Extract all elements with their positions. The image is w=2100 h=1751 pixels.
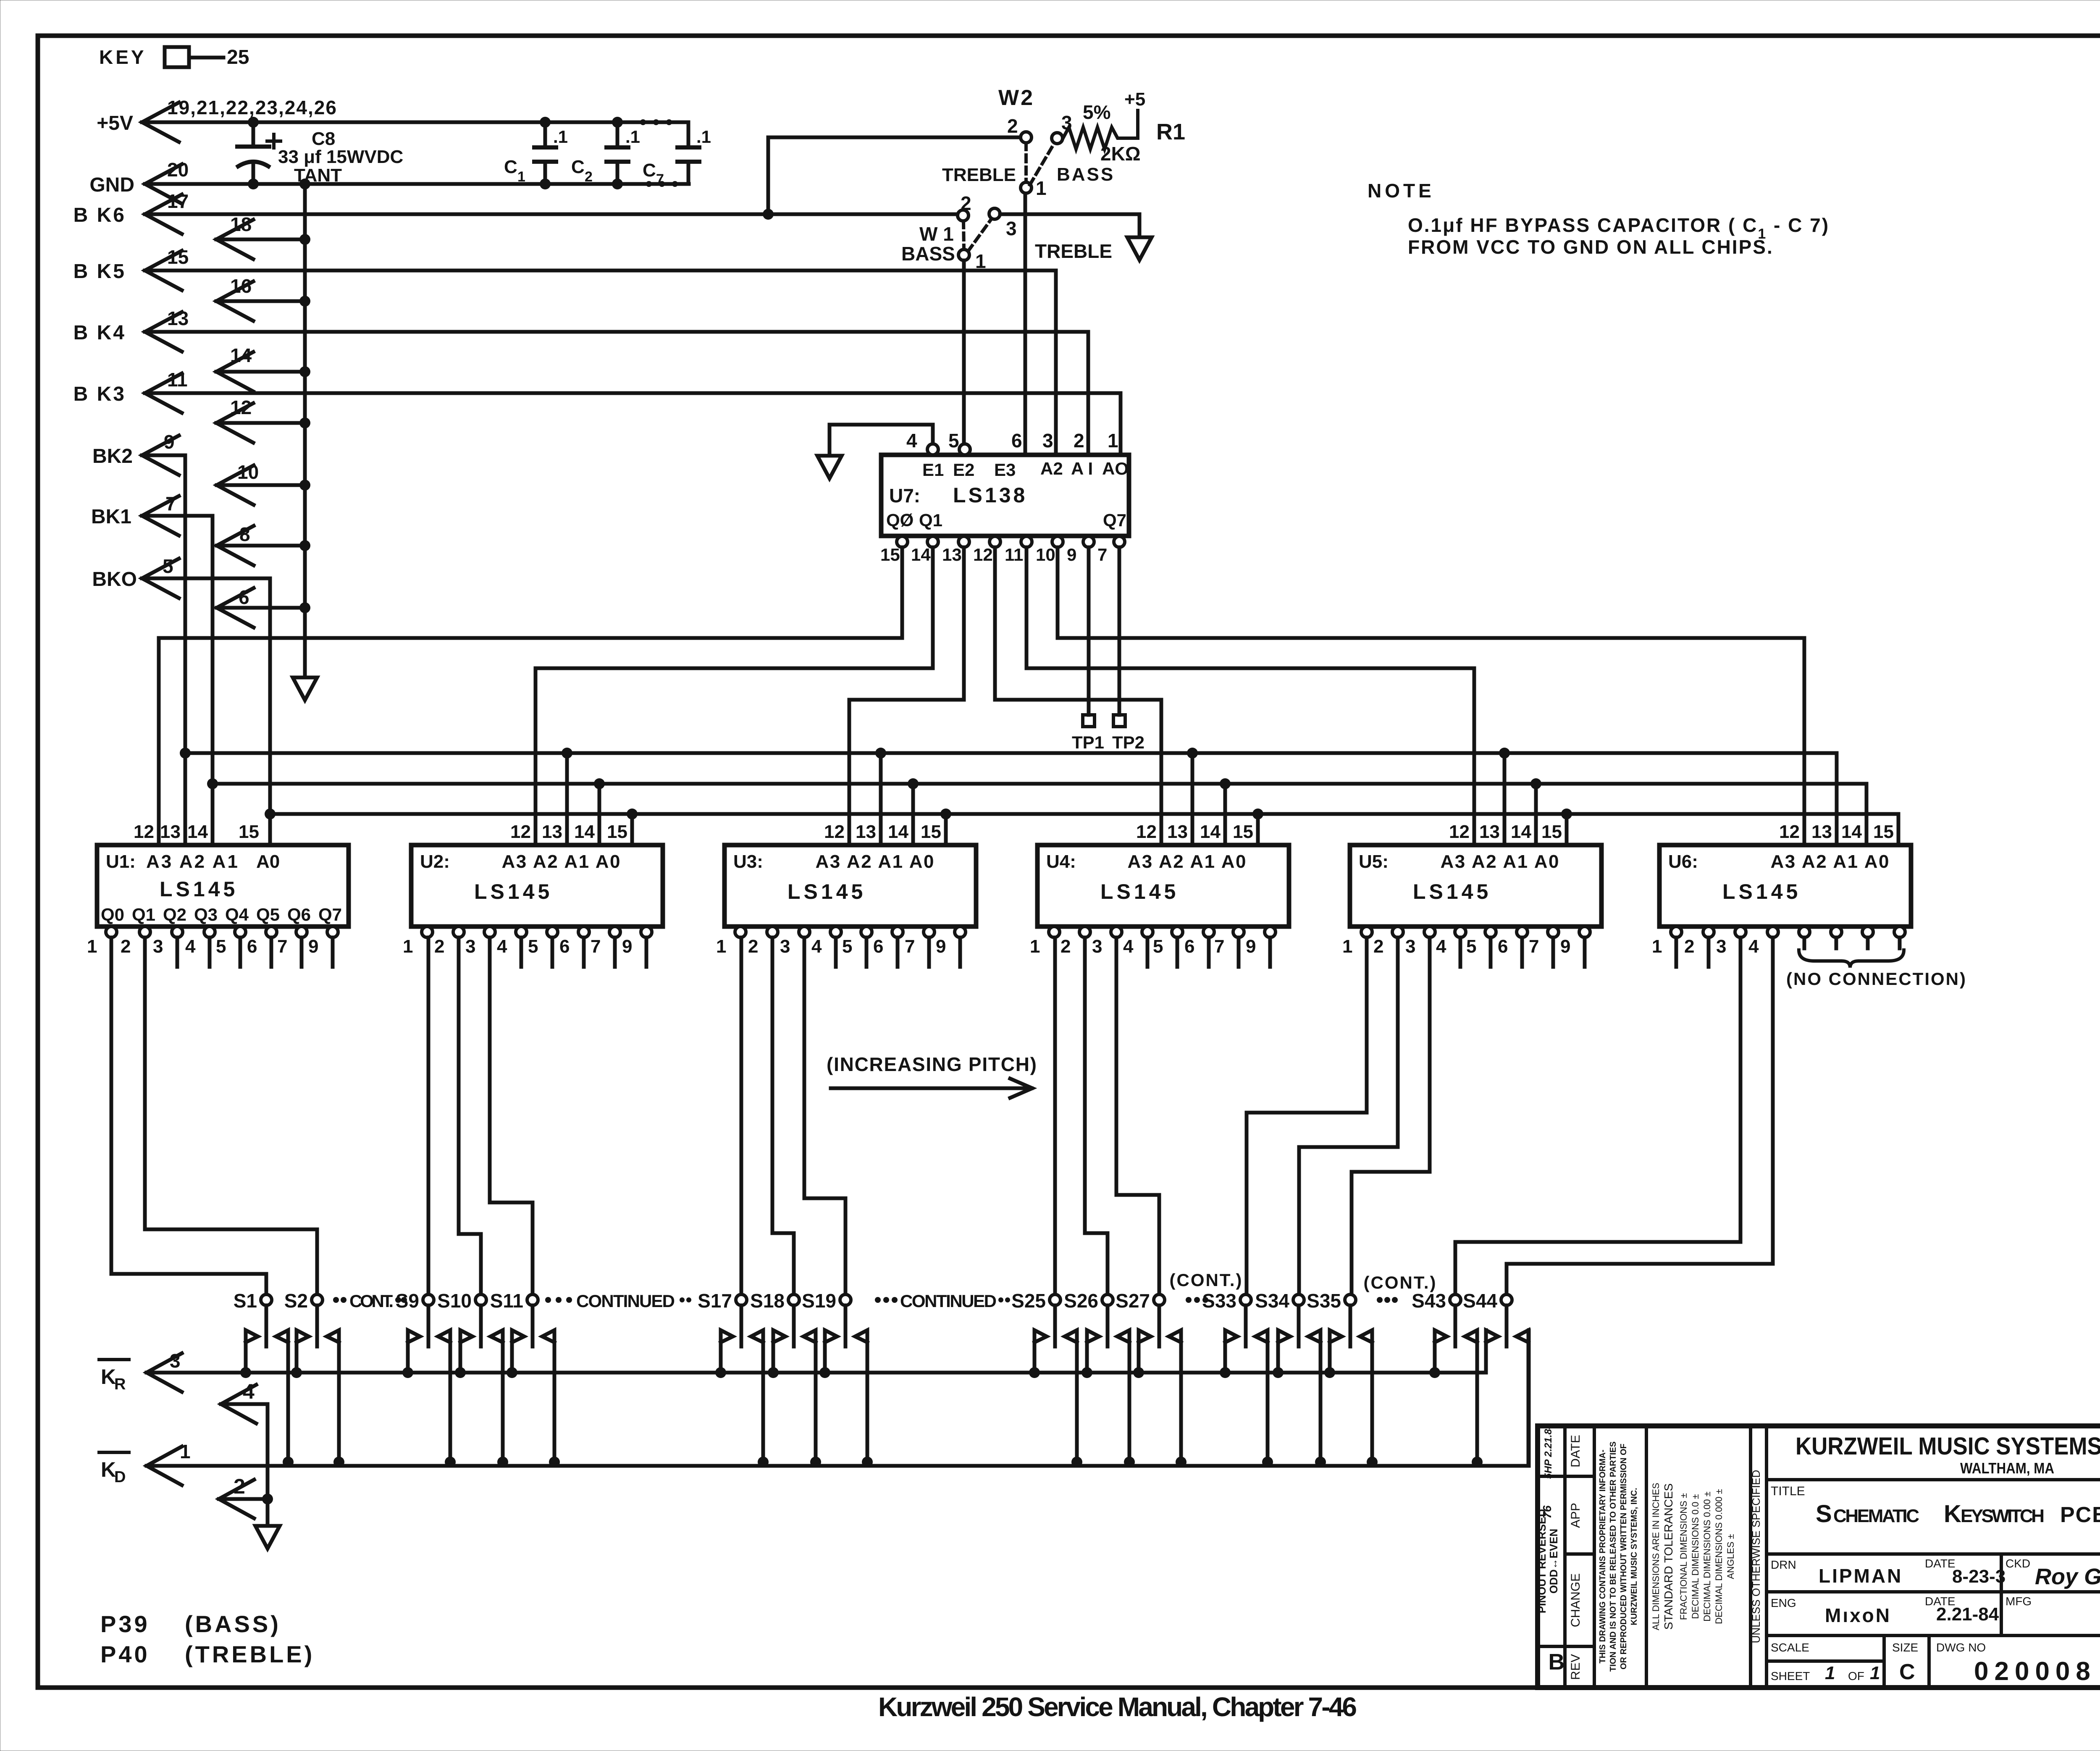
wire U2 Q0 to S9 — [427, 937, 430, 1294]
svg-text:LS145: LS145 — [787, 880, 866, 903]
svg-text:S43: S43 — [1412, 1290, 1446, 1312]
svg-text:S18: S18 — [750, 1290, 785, 1312]
svg-text:S: S — [1816, 1500, 1832, 1528]
svg-text:ODD↔EVEN: ODD↔EVEN — [1547, 1529, 1560, 1594]
svg-text:4: 4 — [185, 936, 196, 957]
svg-text:SHEET: SHEET — [1771, 1670, 1810, 1683]
switch S1 — [261, 1294, 272, 1305]
svg-text:TION AND IS NOT TO BE RELEASED: TION AND IS NOT TO BE RELEASED TO OTHER … — [1609, 1441, 1618, 1672]
svg-text:9: 9 — [622, 936, 632, 957]
svg-text:9: 9 — [1560, 936, 1570, 957]
wire Q1 to U2 pin12 — [931, 547, 935, 668]
wire BK4 to A1 — [1087, 332, 1090, 455]
diode S25b — [1065, 1330, 1077, 1462]
svg-text:12: 12 — [1449, 822, 1470, 842]
svg-text:13: 13 — [856, 822, 876, 842]
svg-text:14: 14 — [888, 822, 908, 842]
svg-text:6: 6 — [1184, 936, 1194, 957]
svg-text:(CONT.): (CONT.) — [1170, 1270, 1243, 1290]
switch S33 — [1240, 1294, 1251, 1305]
svg-text:DRN: DRN — [1771, 1558, 1796, 1571]
svg-text:3: 3 — [1092, 936, 1102, 957]
scale sheet size dwg rev row — [1882, 1635, 1886, 1688]
svg-text:P40: P40 — [100, 1641, 150, 1667]
ground — [1127, 237, 1152, 260]
svg-text:Kurzweil 250 Service Manual, C: Kurzweil 250 Service Manual, Chapter 7-4… — [878, 1692, 1357, 1722]
switch S17 — [736, 1294, 747, 1305]
switch S18 — [788, 1294, 799, 1305]
svg-text:1: 1 — [975, 250, 986, 272]
svg-text:BKO: BKO — [92, 568, 137, 591]
svg-text:2: 2 — [585, 169, 593, 185]
svg-text:THIS DRAWING CONTAINS PROPRIET: THIS DRAWING CONTAINS PROPRIETARY INFORM… — [1598, 1449, 1607, 1663]
svg-text:C: C — [504, 157, 517, 177]
svg-text:C8: C8 — [312, 129, 335, 149]
wire BK1 — [142, 496, 179, 536]
svg-text:C: C — [571, 157, 585, 177]
svg-text:5: 5 — [1153, 936, 1163, 957]
svg-text:CHANGE: CHANGE — [1569, 1573, 1583, 1627]
continuation dots and labels — [333, 1297, 339, 1303]
svg-text:C: C — [643, 160, 656, 181]
svg-text:7: 7 — [1097, 545, 1107, 564]
svg-text:(CONT.): (CONT.) — [1364, 1273, 1437, 1292]
svg-text:WALTHAM, MA: WALTHAM, MA — [1960, 1460, 2054, 1477]
svg-text:7: 7 — [277, 936, 287, 957]
svg-text:ANGLES: ANGLES ± — [1725, 1534, 1736, 1579]
svg-text:AO: AO — [1102, 459, 1129, 478]
svg-text:1: 1 — [1652, 936, 1662, 957]
svg-text:QØ: QØ — [886, 510, 913, 530]
diode S44a — [1486, 1330, 1498, 1373]
svg-text:Q1: Q1 — [919, 510, 942, 530]
U7 bottom pins — [897, 536, 908, 547]
svg-text:12: 12 — [134, 822, 154, 842]
switch S19 — [840, 1294, 851, 1305]
wire Q0 to U1 pin12 — [900, 547, 904, 638]
tolerances column — [1749, 1426, 1752, 1688]
svg-text:10: 10 — [1036, 545, 1055, 564]
diode S9a — [408, 1330, 420, 1373]
diode S2a — [297, 1330, 309, 1373]
decoder U1 LS145 — [97, 845, 349, 927]
wire KR right end riser (S44a) — [1484, 1330, 1488, 1373]
svg-text:S17: S17 — [698, 1290, 732, 1312]
svg-text:2: 2 — [748, 936, 758, 957]
svg-text:6: 6 — [247, 936, 257, 957]
switch S43 — [1450, 1294, 1461, 1305]
svg-text:W 1: W 1 — [919, 223, 954, 245]
svg-text:REV: REV — [1569, 1654, 1583, 1680]
diode S18a — [773, 1330, 785, 1373]
svg-text:DECIMAL DIMENSIONS 0.0: DECIMAL DIMENSIONS 0.0 ± — [1690, 1494, 1701, 1619]
svg-text:STANDARD TOLERANCES: STANDARD TOLERANCES — [1662, 1483, 1675, 1630]
svg-text:12: 12 — [973, 545, 993, 564]
diode S44b — [1516, 1330, 1528, 1462]
LS145 top pin drop wires — [565, 753, 569, 845]
svg-text:OR REPRODUCED WITHOUT WRITTEN: OR REPRODUCED WITHOUT WRITTEN PERMISSION… — [1619, 1444, 1628, 1670]
svg-text:2: 2 — [1373, 936, 1383, 957]
svg-text:APP: APP — [1569, 1503, 1583, 1528]
diode S2b — [327, 1330, 339, 1462]
switch S26 — [1102, 1294, 1113, 1305]
svg-text:(BASS): (BASS) — [185, 1611, 281, 1637]
svg-text:4: 4 — [906, 430, 917, 452]
wire U5 Q1 to S34 — [1396, 937, 1400, 1147]
diode S33a — [1225, 1330, 1237, 1373]
svg-text:BASS: BASS — [901, 243, 955, 265]
eng row — [1767, 1634, 2100, 1637]
svg-text:5: 5 — [948, 430, 959, 452]
svg-text:1: 1 — [403, 936, 413, 957]
decoder U3 LS145 — [724, 845, 976, 927]
svg-text:OF: OF — [1848, 1670, 1864, 1683]
proprietary note — [1645, 1426, 1648, 1688]
diode S34a — [1278, 1330, 1290, 1373]
svg-text:S19: S19 — [802, 1290, 836, 1312]
svg-text:15: 15 — [880, 545, 900, 564]
svg-text:CONTINUED: CONTINUED — [576, 1291, 675, 1311]
svg-text:A3 A2 A1 A0: A3 A2 A1 A0 — [502, 851, 622, 872]
wire U3 Q1 to S18 — [771, 937, 774, 1233]
svg-text:DATE: DATE — [1925, 1557, 1956, 1570]
svg-text:+5V: +5V — [97, 112, 133, 134]
svg-text:(NO CONNECTION): (NO CONNECTION) — [1786, 969, 1967, 989]
svg-text:CONT.: CONT. — [349, 1291, 394, 1311]
svg-text:12: 12 — [1779, 822, 1800, 842]
svg-text:3: 3 — [1405, 936, 1415, 957]
svg-text:7: 7 — [591, 936, 601, 957]
svg-text:B K5: B K5 — [73, 260, 126, 283]
wire BK6 riser to W2 — [766, 137, 770, 214]
diode S27a — [1139, 1330, 1151, 1373]
svg-text:2: 2 — [1007, 115, 1018, 137]
switch S11 — [527, 1294, 538, 1305]
svg-text:Q4: Q4 — [225, 905, 249, 924]
switch S10 — [475, 1294, 486, 1305]
svg-text:13: 13 — [1479, 822, 1500, 842]
svg-text:.1: .1 — [625, 127, 640, 147]
no-connection stubs U6 — [1803, 937, 1806, 948]
capacitor C8 — [252, 122, 255, 147]
svg-text:19,21,22,23,24,26: 19,21,22,23,24,26 — [167, 97, 337, 118]
wire BK3 to A0 — [1119, 393, 1123, 455]
diode S10a — [460, 1330, 472, 1373]
svg-text:A3 A2 A1: A3 A2 A1 — [146, 851, 239, 872]
svg-text:5: 5 — [216, 936, 226, 957]
svg-text:UNLESS OTHERWISE SPECIFIED: UNLESS OTHERWISE SPECIFIED — [1750, 1470, 1762, 1643]
svg-text:8-23-3: 8-23-3 — [1952, 1566, 2005, 1587]
svg-text:S2: S2 — [284, 1290, 308, 1312]
svg-text:LS145: LS145 — [160, 877, 238, 901]
svg-text:Q0: Q0 — [101, 905, 124, 924]
svg-text:S34: S34 — [1255, 1290, 1289, 1312]
wire U5 Q2 to S35 — [1428, 937, 1432, 1172]
svg-text:(INCREASING PITCH): (INCREASING PITCH) — [827, 1053, 1039, 1075]
svg-text:1: 1 — [1342, 936, 1352, 957]
wire connector ground drop — [266, 1404, 270, 1526]
wire bus A0 common — [270, 812, 1898, 816]
wire Q2 to U3 pin12 — [962, 547, 966, 700]
svg-text:R1: R1 — [1156, 119, 1185, 144]
svg-text:U1:: U1: — [106, 851, 136, 872]
svg-text:U6:: U6: — [1668, 851, 1698, 872]
diode S25a — [1034, 1330, 1047, 1373]
wire E2 net W1 pin1 to U7 — [962, 260, 966, 444]
switch S2 — [312, 1294, 323, 1305]
switch S44 — [1501, 1294, 1512, 1305]
svg-text:CONTINUED: CONTINUED — [900, 1291, 997, 1311]
svg-text:1: 1 — [716, 936, 726, 957]
svg-text:13: 13 — [542, 822, 562, 842]
svg-text:S26: S26 — [1064, 1290, 1098, 1312]
svg-text:Q7: Q7 — [1103, 510, 1126, 530]
svg-text:A3 A2 A1 A0: A3 A2 A1 A0 — [1771, 851, 1890, 872]
svg-text:S25: S25 — [1011, 1290, 1046, 1312]
wire U1 Q0 to S1 — [110, 937, 113, 1274]
svg-text:6: 6 — [1011, 430, 1022, 452]
svg-text:76: 76 — [1541, 1505, 1554, 1519]
svg-text:1: 1 — [180, 1441, 191, 1462]
wire U6 Q2 to S43 — [1739, 937, 1743, 1242]
test point TP2 — [1118, 547, 1121, 715]
svg-text:PCB: PCB — [2060, 1503, 2100, 1527]
svg-text:A2: A2 — [1040, 459, 1063, 478]
svg-text:Roy G: Roy G — [2035, 1564, 2100, 1589]
svg-text:BASS: BASS — [1057, 164, 1115, 185]
svg-text:DWG NO: DWG NO — [1936, 1641, 1986, 1654]
svg-text:C: C — [1899, 1660, 1915, 1684]
svg-text:1: 1 — [1030, 936, 1040, 957]
svg-text:14: 14 — [1841, 822, 1862, 842]
svg-text:3: 3 — [1716, 936, 1726, 957]
svg-text:U2:: U2: — [420, 851, 450, 872]
wire bus A1 common — [213, 782, 1866, 786]
diode S1b — [276, 1330, 288, 1462]
svg-text:13: 13 — [160, 822, 181, 842]
svg-text:B K6: B K6 — [73, 204, 126, 226]
svg-text:5: 5 — [1466, 936, 1476, 957]
junction dots on ground bus — [299, 179, 310, 189]
svg-text:12: 12 — [510, 822, 531, 842]
svg-text:13: 13 — [942, 545, 962, 564]
svg-text:ALL DIMENSIONS ARE IN INCHES: ALL DIMENSIONS ARE IN INCHES — [1651, 1483, 1661, 1630]
svg-text:7: 7 — [905, 936, 915, 957]
svg-text:3: 3 — [465, 936, 475, 957]
wire U3 Q0 to S17 — [740, 937, 743, 1294]
svg-text:1: 1 — [87, 936, 97, 957]
svg-text:14: 14 — [1511, 822, 1531, 842]
capacitor C1 — [543, 122, 547, 147]
svg-text:3: 3 — [1042, 430, 1053, 452]
svg-text:2.21-84: 2.21-84 — [1936, 1604, 1999, 1625]
svg-text:2KΩ: 2KΩ — [1100, 143, 1141, 165]
svg-text:15: 15 — [1873, 822, 1894, 842]
svg-text:SIZE: SIZE — [1892, 1641, 1918, 1654]
svg-text:Q2: Q2 — [163, 905, 186, 924]
node KD pin 1 — [99, 1451, 129, 1454]
diode S33b — [1255, 1330, 1268, 1462]
diode S11b — [542, 1330, 554, 1462]
svg-text:11: 11 — [1005, 545, 1023, 564]
svg-text:12: 12 — [1136, 822, 1157, 842]
svg-text:15: 15 — [921, 822, 941, 842]
svg-text:LS138: LS138 — [953, 483, 1027, 507]
svg-text:12: 12 — [824, 822, 845, 842]
svg-text:DATE: DATE — [1569, 1435, 1583, 1467]
svg-text:PINOUT REVERSED: PINOUT REVERSED — [1536, 1509, 1548, 1614]
wire BK5 to A2 — [1054, 270, 1058, 455]
wire KD bus — [147, 1446, 182, 1485]
svg-text:S10: S10 — [437, 1290, 472, 1312]
ground — [817, 456, 842, 478]
svg-text:15: 15 — [239, 822, 259, 842]
wire BK3 — [145, 373, 182, 413]
svg-text:BK1: BK1 — [91, 506, 131, 528]
svg-text:LS145: LS145 — [1413, 880, 1491, 903]
no connection brace — [1799, 950, 1904, 968]
svg-text:4: 4 — [1436, 936, 1446, 957]
svg-text:Q3: Q3 — [194, 905, 218, 924]
svg-text:15: 15 — [1233, 822, 1253, 842]
svg-text:FRACTIONAL DIMENSIONS: FRACTIONAL DIMENSIONS ± — [1678, 1493, 1689, 1620]
wire U2 Q1 to S10 — [457, 937, 461, 1234]
svg-text:2: 2 — [1684, 936, 1694, 957]
svg-text:4: 4 — [811, 936, 822, 957]
wire BK2 — [142, 436, 179, 475]
svg-text:2: 2 — [434, 936, 444, 957]
decoder U4 LS145 — [1037, 845, 1289, 927]
wire U4 Q0 to S25 — [1053, 937, 1057, 1294]
wire ground bus vertical — [303, 184, 307, 677]
svg-text:A3 A2 A1 A0: A3 A2 A1 A0 — [1128, 851, 1247, 872]
svg-text:GND: GND — [89, 174, 134, 196]
wire bus A2 common — [185, 751, 1837, 755]
svg-text:3: 3 — [1006, 218, 1017, 239]
svg-text:ENG: ENG — [1771, 1596, 1796, 1609]
svg-text:5: 5 — [842, 936, 852, 957]
wire Q5 to U6 pin12 — [1056, 547, 1060, 638]
svg-text:25: 25 — [227, 46, 249, 68]
wire BK2 riser to U1 pin13 — [184, 455, 187, 845]
svg-text:CHEMATIC: CHEMATIC — [1833, 1506, 1919, 1526]
svg-text:S44: S44 — [1463, 1290, 1497, 1312]
wire U5 Q0 to S33 — [1365, 937, 1369, 1113]
svg-text:BK2: BK2 — [92, 445, 133, 467]
svg-text:5HP 2.21.84: 5HP 2.21.84 — [1543, 1423, 1554, 1479]
svg-text:020008: 020008 — [1974, 1657, 2096, 1686]
ground — [255, 1526, 280, 1549]
svg-text:A I: A I — [1071, 459, 1093, 478]
decoder U6 LS145 — [1659, 845, 1911, 927]
svg-text:6: 6 — [873, 936, 883, 957]
wire E3 net W2 pin1 to U7 — [1024, 194, 1027, 455]
svg-text:U5:: U5: — [1359, 851, 1389, 872]
diode S11a — [512, 1330, 524, 1373]
svg-text:W2: W2 — [998, 86, 1034, 110]
diode S34b — [1308, 1330, 1320, 1462]
diode S35a — [1330, 1330, 1342, 1373]
diode S19b — [855, 1330, 867, 1462]
wire U1 Q1 to S2 — [143, 937, 147, 1229]
pin E2 circle — [959, 444, 970, 455]
svg-text:EYSWITCH: EYSWITCH — [1961, 1506, 2045, 1526]
svg-text:14: 14 — [187, 822, 208, 842]
wire GND bus — [145, 164, 182, 204]
wire BK1 riser to U1 pin14 — [211, 516, 215, 845]
diode S10b — [491, 1330, 503, 1462]
capacitor C2 — [616, 122, 619, 147]
capacitor C7 — [687, 122, 690, 147]
svg-text:B: B — [1549, 1649, 1565, 1675]
wire Q4 to U5 pin12 — [1025, 547, 1029, 668]
switch S27 — [1154, 1294, 1165, 1305]
node KR pin 3 — [99, 1358, 129, 1361]
wire BK0 riser to U1 pin15 — [268, 578, 272, 845]
svg-text:B K3: B K3 — [73, 383, 126, 405]
wire U2 Q2 to S11 — [488, 937, 492, 1202]
svg-text:9: 9 — [1246, 936, 1256, 957]
pin E1 circle — [927, 444, 938, 455]
diode S35b — [1360, 1330, 1372, 1462]
wire KR bus — [147, 1353, 182, 1392]
diode S9b — [438, 1330, 450, 1462]
title row — [1767, 1552, 2100, 1556]
svg-text:R: R — [114, 1376, 126, 1393]
svg-text:A3 A2 A1 A0: A3 A2 A1 A0 — [1441, 851, 1560, 872]
wire BK6 — [145, 194, 182, 234]
diode S26a — [1087, 1330, 1099, 1373]
switch S34 — [1293, 1294, 1304, 1305]
svg-text:14: 14 — [1200, 822, 1221, 842]
svg-text:LIPMAN: LIPMAN — [1819, 1565, 1903, 1587]
diode S17b — [751, 1330, 763, 1462]
svg-text:U7:: U7: — [889, 485, 920, 507]
dotted continuation — [640, 119, 646, 125]
svg-text:1: 1 — [1825, 1663, 1835, 1683]
svg-text:TREBLE: TREBLE — [1035, 240, 1112, 262]
svg-text:S27: S27 — [1116, 1290, 1150, 1312]
drn row — [1767, 1590, 2100, 1593]
svg-text:S1: S1 — [234, 1290, 257, 1312]
svg-text:1: 1 — [1108, 430, 1118, 452]
svg-text:14: 14 — [574, 822, 595, 842]
svg-text:K: K — [101, 1458, 116, 1481]
diode S27b — [1169, 1330, 1181, 1462]
svg-text:Q5: Q5 — [256, 905, 280, 924]
wire +5V bus — [142, 102, 179, 142]
svg-text:D: D — [114, 1468, 126, 1486]
title block — [1538, 1426, 2100, 1688]
svg-text:3: 3 — [780, 936, 790, 957]
svg-text:K: K — [101, 1365, 116, 1389]
svg-text:7: 7 — [656, 171, 664, 187]
svg-text:9: 9 — [936, 936, 946, 957]
wire U3 Q2 to S19 — [803, 937, 806, 1198]
svg-text:NOTE: NOTE — [1368, 180, 1435, 202]
test point TP1 — [1087, 547, 1091, 715]
diode S26b — [1117, 1330, 1129, 1462]
svg-text:DECIMAL DIMENSIONS 0.00: DECIMAL DIMENSIONS 0.00 ± — [1702, 1491, 1712, 1622]
svg-text:13: 13 — [1811, 822, 1832, 842]
svg-text:Q6: Q6 — [287, 905, 311, 924]
svg-text:E2: E2 — [953, 460, 974, 480]
diode S17a — [721, 1330, 733, 1373]
svg-text:7: 7 — [1214, 936, 1224, 957]
switch S9 — [423, 1294, 434, 1305]
svg-text:U3:: U3: — [733, 851, 763, 872]
svg-text:KEY: KEY — [99, 46, 147, 68]
